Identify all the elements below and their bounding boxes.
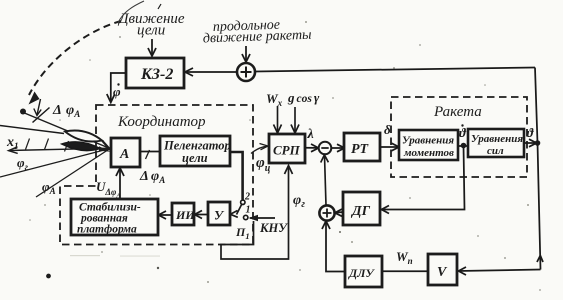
line of sight <box>22 112 110 149</box>
arrow: target movement to KZ-2 <box>148 39 156 56</box>
arc arrowhead <box>29 92 40 105</box>
wire theta-dot node down into DG <box>381 146 465 214</box>
wire: KZ-2 output phi-dot down to coordinator <box>107 73 126 103</box>
block SRP <box>269 134 305 163</box>
block equations of moments <box>399 130 458 160</box>
block stabilized platform <box>71 199 158 236</box>
rocket dashed box <box>391 97 527 177</box>
svg-text:РТ: РТ <box>351 142 370 157</box>
svg-text:сил: сил <box>487 145 504 157</box>
svg-text:λ: λ <box>307 127 314 142</box>
thick wire: Pelengator output down to contact 2 <box>230 152 243 200</box>
wire U to II <box>194 211 208 219</box>
block U <box>208 202 230 225</box>
antenna axis line to upper left <box>0 126 64 134</box>
svg-text:Уравнения: Уравнения <box>402 135 454 147</box>
right feedback vertical <box>535 68 541 270</box>
coordinator dashed box <box>60 105 253 245</box>
svg-text:Δ: Δ <box>139 169 149 184</box>
svg-text:КЗ-2: КЗ-2 <box>140 66 173 83</box>
rocket longitudinal movement label <box>203 18 312 47</box>
summator S2 (minus) <box>319 142 332 155</box>
block Pelengator tseli <box>160 136 231 166</box>
block II <box>172 203 195 225</box>
svg-text:δ: δ <box>384 122 391 137</box>
wire platform to A <box>116 168 124 199</box>
x1 axis line <box>9 147 111 154</box>
stress tick <box>158 4 161 9</box>
block RT <box>344 133 380 161</box>
svg-text:ДГ: ДГ <box>350 204 371 219</box>
svg-text:ДЛУ: ДЛУ <box>348 266 375 280</box>
switch contact 1 <box>244 215 248 219</box>
label delta-phi-A (under wire) <box>139 169 165 185</box>
antenna lens upper <box>65 130 102 141</box>
target movement label <box>117 4 185 39</box>
wire S3 up into S2 <box>321 155 329 206</box>
small down arrow near target dot <box>34 99 41 116</box>
dashed trajectory arc <box>29 21 121 95</box>
block A <box>111 138 140 167</box>
block V <box>428 254 457 285</box>
svg-text:Координатор: Координатор <box>117 114 206 130</box>
wire forces output to right line <box>524 139 537 147</box>
wire A to Pelengator <box>140 151 160 153</box>
arrow g cos gamma into SRP <box>291 107 299 133</box>
block equations of forces <box>468 129 524 157</box>
long feedback line from right into summator S1 <box>255 68 535 72</box>
wire SRP to minus summator <box>305 144 319 152</box>
label theta-dot <box>459 124 467 140</box>
svg-text:цели: цели <box>137 23 165 39</box>
switch contact 2 <box>241 200 245 204</box>
thin arc <box>118 1 144 23</box>
label phi-dot <box>113 83 121 99</box>
svg-text:gcosγ: gcosγ <box>287 90 320 105</box>
leader line from delta-phi-A label to sight line <box>33 108 50 123</box>
angle ticks <box>26 139 69 152</box>
node theta-dot <box>458 143 468 149</box>
wire II to platform <box>158 211 172 219</box>
switch arm into U <box>230 205 241 218</box>
svg-text:ИИ: ИИ <box>175 208 195 222</box>
wire RT to moments <box>380 143 399 151</box>
svg-text:2: 2 <box>244 192 250 203</box>
svg-text:1: 1 <box>246 205 251 216</box>
svg-text:А: А <box>119 147 129 162</box>
wire: summator S1 to KZ-2 <box>185 68 237 76</box>
wire right line down into V <box>458 256 543 276</box>
phi-g fan line <box>0 149 110 178</box>
block DG <box>343 192 380 225</box>
svg-text:Δ: Δ <box>52 103 62 118</box>
svg-text:платформа: платформа <box>77 224 137 236</box>
label delta-phi-A (upper left) <box>52 103 80 119</box>
wire V to DLU <box>382 270 428 272</box>
phi-A fan line <box>36 149 110 198</box>
block DLU <box>345 256 382 287</box>
phi-ts arrow into SRP <box>251 144 268 154</box>
svg-text:СРП: СРП <box>273 143 301 158</box>
block KZ-2 <box>126 58 184 88</box>
tick on wire <box>146 150 150 159</box>
svg-text:ϑ: ϑ <box>459 125 467 140</box>
wire DLU left and up into summator S3 <box>322 221 345 272</box>
svg-text:φ: φ <box>113 84 121 99</box>
arrow: longitudinal movement to top summator <box>242 46 250 62</box>
summator S1 (top) <box>237 63 255 81</box>
summator S3 (plus, near DG) <box>319 205 334 220</box>
svg-text:цели: цели <box>182 151 208 165</box>
svg-text:КНУ: КНУ <box>259 221 288 235</box>
wire S2 to RT <box>332 144 345 152</box>
antenna lens lower <box>62 142 100 151</box>
junction node <box>535 140 541 146</box>
svg-text:моментов: моментов <box>403 147 454 159</box>
target point <box>20 109 26 115</box>
wire: contact 1 / KNU down and around to SRP phi-g input <box>221 167 289 260</box>
KNU input arrow <box>249 215 289 235</box>
wire DG to S3 <box>335 209 343 216</box>
svg-text:Ракета: Ракета <box>433 104 482 120</box>
arrow Wx into SRP <box>274 106 282 133</box>
svg-text:ϑ: ϑ <box>527 125 535 140</box>
svg-text:Уравнения: Уравнения <box>471 133 523 145</box>
